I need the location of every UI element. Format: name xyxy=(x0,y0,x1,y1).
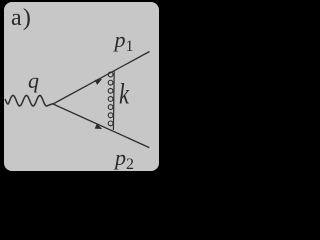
svg-text:k: k xyxy=(119,76,130,110)
svg-text:q: q xyxy=(28,68,39,93)
paper background xyxy=(4,2,159,171)
arrowhead on lower fermion line xyxy=(95,124,103,129)
svg-text:p2: p2 xyxy=(113,145,134,173)
arrowhead on upper fermion line xyxy=(95,79,103,85)
wire: lower fermion line (vertex to p2) xyxy=(53,104,149,148)
wire: upper fermion line (vertex to p1) xyxy=(53,52,150,105)
svg-text:p1: p1 xyxy=(113,27,134,55)
svg-text:a): a) xyxy=(11,5,32,31)
photon propagator q (wavy line) xyxy=(5,95,53,106)
gluon propagator k: coil straight line xyxy=(112,71,115,130)
gluon propagator k: coil loops xyxy=(108,72,113,126)
